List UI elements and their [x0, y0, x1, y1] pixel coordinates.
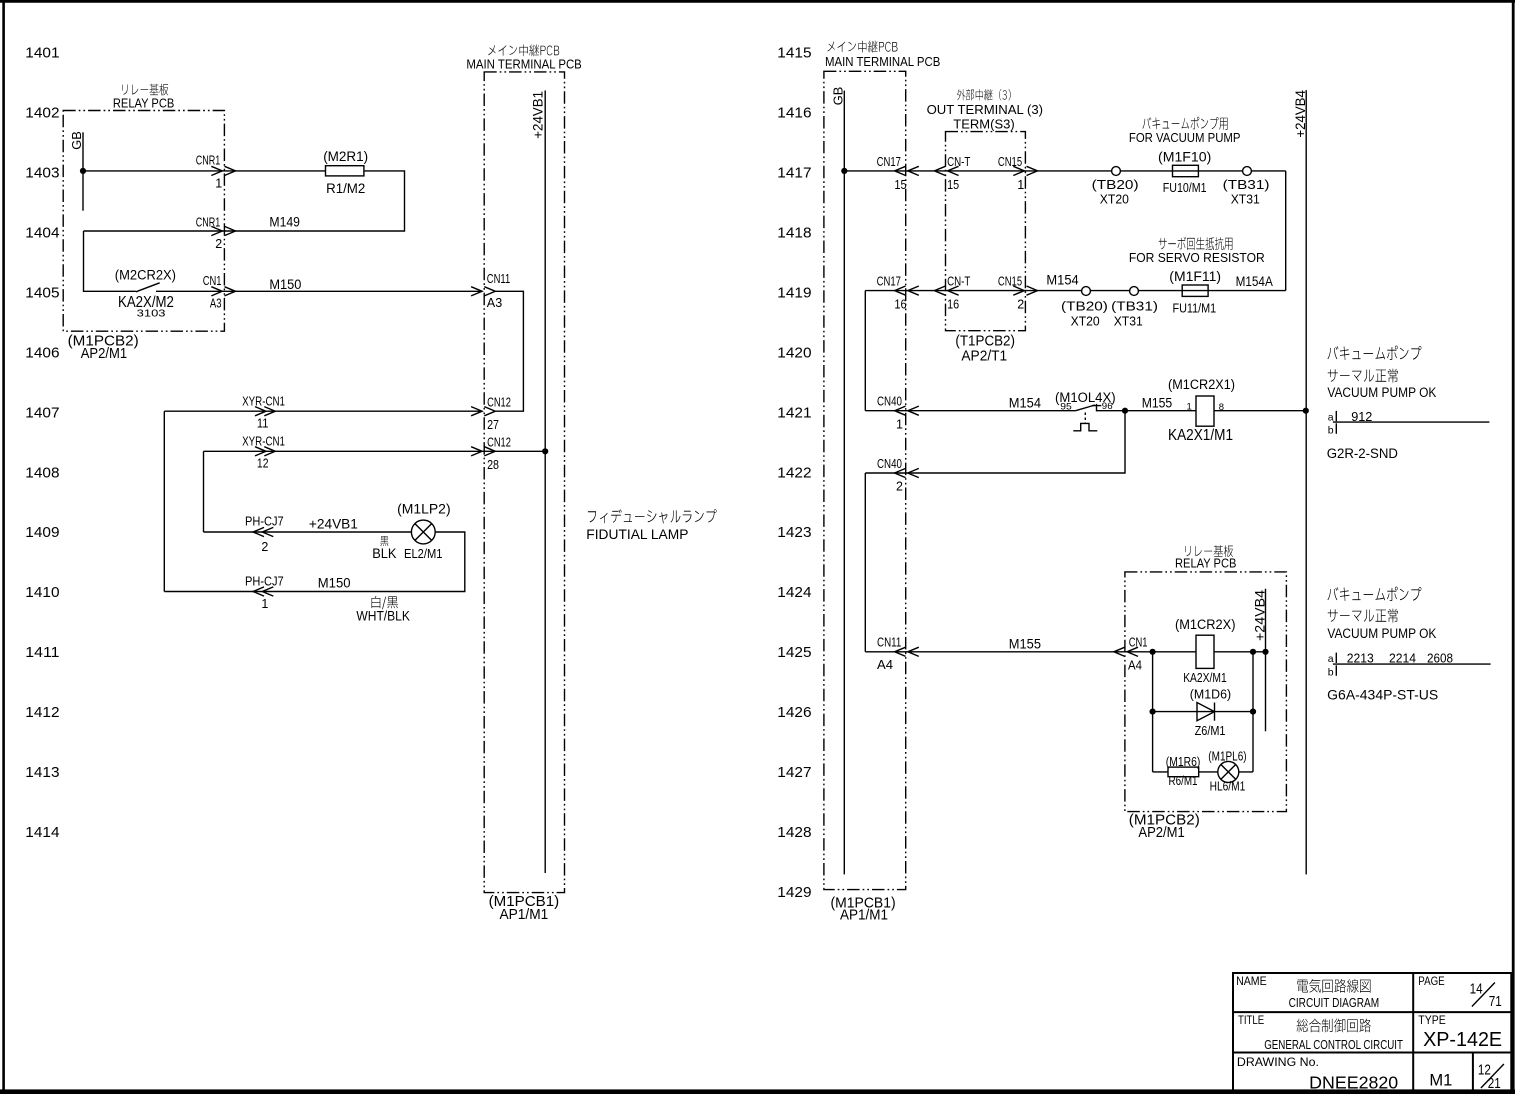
wire CN40 2 inside box down to CN11 A4 — [864, 473, 866, 652]
svg-text:XT20: XT20 — [1071, 314, 1100, 329]
connector CN40 pin 2 arrow — [877, 457, 919, 494]
svg-text:XYR-CN1: XYR-CN1 — [242, 435, 285, 449]
svg-text:CIRCUIT DIAGRAM: CIRCUIT DIAGRAM — [1289, 995, 1380, 1010]
svg-text:CN40: CN40 — [877, 395, 902, 409]
label リレー基板 RELAY PCB — [113, 84, 174, 111]
svg-text:A4: A4 — [877, 658, 893, 672]
svg-text:+24VB1: +24VB1 — [309, 517, 358, 532]
svg-text:2213: 2213 — [1347, 651, 1374, 666]
out terminal enclosure TERM(S3) dash-dot box — [946, 132, 1026, 331]
svg-text:TITLE: TITLE — [1238, 1013, 1264, 1027]
svg-text:28: 28 — [487, 458, 499, 472]
svg-text:GB: GB — [831, 87, 846, 106]
svg-text:RELAY PCB: RELAY PCB — [113, 96, 174, 111]
svg-text:12: 12 — [257, 457, 269, 471]
svg-text:1406: 1406 — [25, 344, 59, 361]
svg-text:1403: 1403 — [25, 165, 59, 182]
svg-text:11: 11 — [257, 417, 269, 431]
relay coil KA2X1/M1 (M1CR2X1) pins 1 8 — [1168, 377, 1235, 444]
svg-text:M149: M149 — [269, 214, 300, 229]
svg-text:1419: 1419 — [777, 284, 811, 301]
connector PH-CJ7 pin 2 arrow — [245, 515, 284, 554]
svg-text:XT31: XT31 — [1114, 314, 1143, 329]
svg-text:1411: 1411 — [25, 644, 59, 661]
terminal (TB20) XT20 row 1419 — [1061, 287, 1108, 329]
svg-text:FOR VACUUM PUMP: FOR VACUUM PUMP — [1129, 130, 1241, 145]
svg-text:+24VB4: +24VB4 — [1293, 90, 1308, 138]
connector CNR1 pin 1 arrow — [196, 154, 236, 191]
relay pcb enclosure (M1PCB2) dash-dot box right — [1125, 572, 1287, 812]
label サーボ回生抵抗用 FOR SERVO RESISTOR — [1129, 237, 1265, 265]
svg-text:2: 2 — [215, 237, 222, 251]
svg-text:DNEE2820: DNEE2820 — [1309, 1073, 1398, 1093]
svg-text:VACUUM PUMP OK: VACUUM PUMP OK — [1327, 626, 1436, 641]
svg-text:FIDUTIAL LAMP: FIDUTIAL LAMP — [586, 526, 688, 542]
svg-text:1: 1 — [215, 176, 222, 190]
title block — [1233, 973, 1511, 1093]
net +24VB1 bus — [530, 91, 545, 874]
svg-text:1427: 1427 — [777, 764, 811, 781]
svg-text:TERM(S3): TERM(S3) — [953, 116, 1014, 131]
connector CN17 pin 15 arrow — [877, 155, 919, 192]
svg-text:(M1F10): (M1F10) — [1158, 149, 1211, 164]
wire row 1425 CN11 A4 to relay pcb CN1 A4 — [865, 651, 1196, 653]
svg-text:FOR SERVO RESISTOR: FOR SERVO RESISTOR — [1129, 250, 1265, 265]
svg-text:(M1PL6): (M1PL6) — [1208, 749, 1246, 763]
svg-text:XYR-CN1: XYR-CN1 — [242, 395, 285, 409]
svg-text:16: 16 — [947, 298, 959, 312]
svg-text:15: 15 — [894, 178, 906, 192]
svg-text:1401: 1401 — [25, 45, 59, 62]
svg-text:A3: A3 — [487, 296, 502, 310]
connector PH-CJ7 pin 1 arrow — [245, 574, 284, 611]
svg-text:CN11: CN11 — [487, 272, 510, 286]
wire row 1403 GB to resistor R1/M2 — [83, 170, 326, 172]
svg-text:27: 27 — [487, 418, 499, 432]
connector CN-T pin 15 arrow — [934, 155, 970, 192]
svg-text:1412: 1412 — [25, 704, 59, 721]
connector CN17 pin 16 arrow — [877, 275, 919, 312]
svg-text:FU11/M1: FU11/M1 — [1173, 302, 1217, 316]
lamp EL2/M1 (M1LP2) fidutial lamp — [372, 502, 450, 562]
svg-text:R6/M1: R6/M1 — [1169, 774, 1198, 788]
resistor R6/M1 (M1R6) — [1166, 755, 1201, 788]
svg-text:(M1D6): (M1D6) — [1190, 688, 1231, 702]
svg-text:CN15: CN15 — [998, 275, 1022, 289]
svg-text:M155: M155 — [1009, 637, 1041, 652]
label バキュームポンプ用 FOR VACUUM PUMP — [1129, 117, 1241, 145]
svg-text:AP2/T1: AP2/T1 — [961, 348, 1007, 364]
svg-text:(M1LP2): (M1LP2) — [397, 502, 451, 517]
svg-text:RELAY PCB: RELAY PCB — [1175, 555, 1236, 570]
node GB junction row 1403 — [80, 168, 86, 174]
svg-text:1404: 1404 — [25, 225, 59, 242]
label メイン中継PCB MAIN TERMINAL PCB (right) — [825, 41, 940, 70]
svg-text:1416: 1416 — [777, 105, 811, 122]
wire left branch down — [1152, 652, 1154, 772]
svg-text:M154: M154 — [1009, 396, 1042, 411]
svg-text:1408: 1408 — [25, 464, 59, 481]
svg-text:(M1CR2X): (M1CR2X) — [1175, 617, 1236, 632]
svg-text:CN1: CN1 — [1129, 636, 1148, 650]
svg-text:CNR1: CNR1 — [196, 154, 221, 168]
wire coil to +24VB4 stub — [1214, 651, 1266, 653]
svg-text:CN40: CN40 — [877, 457, 902, 471]
svg-text:1405: 1405 — [25, 284, 59, 301]
svg-text:(M2R1): (M2R1) — [323, 149, 368, 164]
label 白/黒 WHT/BLK wire color — [356, 596, 410, 623]
svg-text:(TB31): (TB31) — [1223, 177, 1270, 192]
svg-text:A4: A4 — [1128, 659, 1142, 673]
svg-text:VACUUM PUMP OK: VACUUM PUMP OK — [1327, 385, 1436, 400]
svg-text:G6A-434P-ST-US: G6A-434P-ST-US — [1327, 688, 1438, 703]
svg-text:1417: 1417 — [777, 165, 811, 182]
svg-text:16: 16 — [894, 298, 906, 312]
svg-text:XT31: XT31 — [1231, 192, 1260, 207]
relay pcb enclosure (M1PCB2) dash-dot box — [63, 111, 224, 332]
svg-text:(M1R6): (M1R6) — [1166, 755, 1201, 769]
main terminal pcb enclosure dash-dot box right — [824, 71, 906, 889]
svg-text:1: 1 — [1017, 178, 1024, 192]
wire diode row 1426 — [1153, 711, 1253, 713]
svg-text:1423: 1423 — [777, 524, 811, 541]
svg-text:1429: 1429 — [777, 884, 811, 901]
svg-text:EL2/M1: EL2/M1 — [404, 547, 443, 561]
callout バキュームポンプ サーマル正常 VACUUM PUMP OK G6A-434P-ST-US — [1327, 587, 1490, 703]
connector CNR1 pin 2 arrow — [196, 215, 236, 251]
wire row 1421 CN40 1 to overload contact — [865, 410, 1075, 412]
svg-text:1: 1 — [261, 597, 268, 611]
connector CN15 pin 2 arrow — [998, 275, 1038, 312]
connector CN11 pin A4 arrow — [877, 636, 919, 672]
svg-text:3103: 3103 — [137, 308, 166, 320]
svg-text:OUT TERMINAL (3): OUT TERMINAL (3) — [927, 102, 1043, 117]
wire lamp to corner down to row 1410 — [164, 532, 465, 592]
svg-text:1409: 1409 — [25, 524, 59, 541]
node diode left — [1150, 709, 1156, 715]
svg-text:(M1CR2X1): (M1CR2X1) — [1168, 377, 1235, 392]
svg-text:+24VB1: +24VB1 — [530, 91, 545, 139]
label (M1PCB1) AP1/M1 right — [831, 896, 896, 924]
svg-text:71: 71 — [1489, 993, 1502, 1010]
svg-text:M155: M155 — [1142, 396, 1173, 411]
svg-text:CN15: CN15 — [998, 155, 1022, 169]
row line numbers 1401-1414 — [25, 45, 59, 841]
wire row 1409 to lamp EL2 — [204, 531, 412, 533]
resistor R1/M2 (M2R1) — [323, 149, 368, 196]
terminal (TB20) XT20 row 1417 — [1092, 167, 1139, 207]
node GB junction row 1417 — [841, 168, 847, 174]
net +24VB4 stub in relay pcb — [1252, 589, 1267, 732]
connector CN15 pin 1 arrow — [998, 155, 1038, 192]
svg-text:MAIN TERMINAL PCB: MAIN TERMINAL PCB — [825, 54, 940, 69]
label メイン中継PCB MAIN TERMINAL PCB (left) — [466, 44, 581, 71]
wire row 1407 left drop to row 1410 — [163, 411, 165, 591]
svg-text:NAME: NAME — [1236, 974, 1267, 988]
svg-text:R1/M2: R1/M2 — [326, 180, 365, 196]
label (M1PCB1) AP1/M1 left — [489, 894, 560, 923]
svg-text:2: 2 — [261, 540, 268, 554]
terminal (TB31) XT31 row 1419 — [1111, 287, 1158, 329]
svg-text:+24VB4: +24VB4 — [1252, 589, 1267, 641]
svg-text:1410: 1410 — [25, 584, 59, 601]
svg-text:CN12: CN12 — [487, 395, 511, 409]
svg-text:CNR1: CNR1 — [196, 215, 221, 229]
svg-text:15: 15 — [947, 178, 959, 192]
svg-text:KA2X/M1: KA2X/M1 — [1183, 670, 1227, 685]
svg-text:DRAWING No.: DRAWING No. — [1237, 1055, 1319, 1069]
svg-text:95: 95 — [1060, 402, 1072, 413]
svg-text:CN11: CN11 — [877, 636, 901, 650]
wire row 1408 left drop to row 1409 — [203, 451, 205, 532]
label (M1PCB2) AP2/M1 right — [1129, 813, 1200, 841]
label リレー基板 RELAY PCB (right) — [1175, 545, 1236, 570]
svg-text:2: 2 — [896, 480, 903, 494]
wire row 1417 GB to fuse loop — [844, 170, 1285, 172]
svg-text:CN-T: CN-T — [947, 275, 971, 289]
svg-text:b: b — [1328, 666, 1334, 678]
svg-text:CN17: CN17 — [877, 275, 901, 289]
relay contact KA2X/M2 (M2CR2X) a-contact — [115, 268, 176, 320]
svg-text:PH-CJ7: PH-CJ7 — [245, 515, 284, 529]
svg-text:MAIN TERMINAL PCB: MAIN TERMINAL PCB — [466, 56, 581, 71]
svg-text:CN17: CN17 — [877, 155, 901, 169]
svg-text:1421: 1421 — [777, 404, 811, 421]
wire CN17 16 inside box down to CN40 1 — [864, 291, 866, 411]
wire row 1407 to CN12 27 — [164, 410, 482, 412]
svg-text:1426: 1426 — [777, 704, 811, 721]
node junction M155 row 1421 — [1122, 408, 1128, 414]
svg-text:XT20: XT20 — [1100, 192, 1129, 207]
wire coil to +24VB4 bus — [1214, 410, 1306, 412]
svg-text:21: 21 — [1488, 1075, 1501, 1092]
svg-text:1407: 1407 — [25, 404, 59, 421]
connector XYR-CN1 pin 12 arrow — [242, 435, 285, 471]
svg-text:1415: 1415 — [777, 45, 811, 62]
wire row 1419 — [865, 290, 1285, 292]
svg-text:1413: 1413 — [25, 764, 59, 781]
connector CN1 pin A4 arrow — [1114, 636, 1148, 673]
wire contact to CN1 — [156, 290, 480, 292]
connector XYR-CN1 pin 11 arrow — [242, 395, 285, 431]
svg-text:G2R-2-SND: G2R-2-SND — [1327, 446, 1399, 461]
connector CN40 pin 1 arrow — [877, 395, 919, 432]
svg-text:b: b — [1328, 424, 1334, 436]
svg-text:M150: M150 — [269, 277, 301, 292]
wire loop right side down to row 1419 — [1285, 171, 1287, 291]
svg-text:CN12: CN12 — [487, 435, 511, 449]
svg-text:(TB20): (TB20) — [1061, 299, 1108, 314]
svg-text:CN1: CN1 — [203, 274, 222, 288]
svg-text:1: 1 — [1187, 402, 1192, 413]
svg-text:1424: 1424 — [777, 584, 811, 601]
node diode right — [1250, 709, 1256, 715]
svg-text:1428: 1428 — [777, 824, 811, 841]
relay coil KA2X/M1 (M1CR2X) — [1175, 617, 1236, 685]
svg-text:AP2/M1: AP2/M1 — [81, 346, 127, 362]
svg-text:1414: 1414 — [25, 824, 59, 841]
net GB bus stub (left) — [69, 131, 84, 211]
node +24VB4 stub row 1425 — [1262, 649, 1268, 655]
label フィデューシャルランプ FIDUTIAL LAMP — [586, 509, 716, 542]
fuse FU11/M1 (M1F11) — [1169, 269, 1221, 316]
svg-text:(T1PCB2): (T1PCB2) — [955, 333, 1015, 349]
svg-text:AP1/M1: AP1/M1 — [500, 907, 549, 923]
fuse FU10/M1 (M1F10) — [1158, 149, 1211, 195]
net GB bus (right) — [831, 87, 846, 875]
svg-text:BLK: BLK — [372, 546, 396, 561]
svg-text:M150: M150 — [318, 576, 351, 591]
label 外部中継(3) OUT TERMINAL (3) TERM(S3) — [927, 89, 1043, 131]
svg-text:KA2X1/M1: KA2X1/M1 — [1168, 427, 1233, 444]
svg-text:GB: GB — [69, 131, 84, 150]
svg-text:HL6/M1: HL6/M1 — [1210, 779, 1246, 793]
svg-text:(M1F11): (M1F11) — [1169, 269, 1221, 284]
svg-text:1402: 1402 — [25, 105, 59, 122]
wire right branch down — [1252, 652, 1254, 772]
connector CN1 pin A3 arrow — [203, 274, 236, 311]
wire contact to relay coil KA2X1 — [1097, 410, 1197, 412]
svg-text:1418: 1418 — [777, 225, 811, 242]
wire row 1408 to CN12 28 — [204, 450, 546, 452]
callout バキュームポンプ サーマル正常 VACUUM PUMP OK G2R-2-SND — [1327, 346, 1490, 461]
svg-text:(TB20): (TB20) — [1092, 177, 1139, 192]
label 黒 wire color — [380, 536, 388, 546]
svg-text:M154A: M154A — [1236, 274, 1273, 289]
svg-text:GENERAL CONTROL CIRCUIT: GENERAL CONTROL CIRCUIT — [1264, 1037, 1403, 1052]
svg-text:WHT/BLK: WHT/BLK — [356, 608, 410, 623]
connector CN12 pin 28 arrow — [471, 435, 511, 472]
node CN12 28 to +24VB1 bus — [542, 448, 548, 454]
net +24VB4 bus (far right) — [1293, 90, 1308, 875]
connector CN12 pin 27 arrow — [471, 395, 511, 432]
lamp HL6/M1 (M1PL6) — [1208, 749, 1246, 793]
svg-text:M154: M154 — [1046, 273, 1079, 288]
svg-text:Z6/M1: Z6/M1 — [1195, 724, 1226, 738]
svg-text:2: 2 — [1017, 298, 1024, 312]
svg-text:PH-CJ7: PH-CJ7 — [245, 574, 284, 588]
svg-text:14: 14 — [1470, 981, 1483, 998]
svg-text:PAGE: PAGE — [1418, 974, 1444, 988]
terminal (TB31) XT31 row 1417 — [1223, 167, 1270, 207]
svg-text:FU10/M1: FU10/M1 — [1163, 181, 1207, 195]
svg-text:1425: 1425 — [777, 644, 811, 661]
wire CN11 A3 inside box down to CN12 27 — [495, 291, 523, 411]
svg-text:AP2/M1: AP2/M1 — [1138, 825, 1184, 841]
svg-text:AP1/M1: AP1/M1 — [840, 908, 888, 924]
label (T1PCB2) AP2/T1 — [955, 333, 1015, 364]
wire row 1404 down to row 1405 — [84, 231, 136, 291]
node coil to +24VB4 bus row 1421 — [1303, 408, 1309, 414]
svg-text:CN-T: CN-T — [947, 155, 971, 169]
svg-text:XP-142E: XP-142E — [1423, 1029, 1502, 1051]
wire resistor to corner down to row 1404 — [84, 171, 405, 231]
main terminal pcb enclosure (M1PCB1) dash-dot box left — [484, 72, 564, 893]
svg-text:M1: M1 — [1429, 1070, 1452, 1089]
connector CN11 pin A3 arrow (into main terminal pcb) — [471, 272, 510, 310]
svg-text:2214: 2214 — [1389, 651, 1416, 666]
row line numbers 1415-1429 — [777, 45, 811, 901]
label (M1PCB2) AP2/M1 — [68, 333, 139, 361]
diode Z6/M1 (M1D6) — [1190, 688, 1231, 739]
node right branch row 1425 — [1250, 649, 1256, 655]
wire node M155 down to row 1422 CN40 2 — [865, 411, 1125, 473]
svg-text:1: 1 — [896, 417, 903, 431]
svg-text:2608: 2608 — [1427, 651, 1453, 666]
svg-text:(M2CR2X): (M2CR2X) — [115, 268, 176, 283]
svg-text:1422: 1422 — [777, 464, 811, 481]
node left branch row 1425 — [1150, 649, 1156, 655]
svg-text:(TB31): (TB31) — [1111, 299, 1158, 314]
thermal overload contact (M1OL4X) pins 95 96 — [1055, 390, 1116, 431]
svg-text:TYPE: TYPE — [1418, 1013, 1445, 1027]
svg-text:A3: A3 — [210, 297, 222, 311]
svg-text:1420: 1420 — [777, 344, 811, 361]
wire lamp row 1427 — [1153, 771, 1253, 773]
connector CN-T pin 16 arrow — [934, 275, 970, 312]
